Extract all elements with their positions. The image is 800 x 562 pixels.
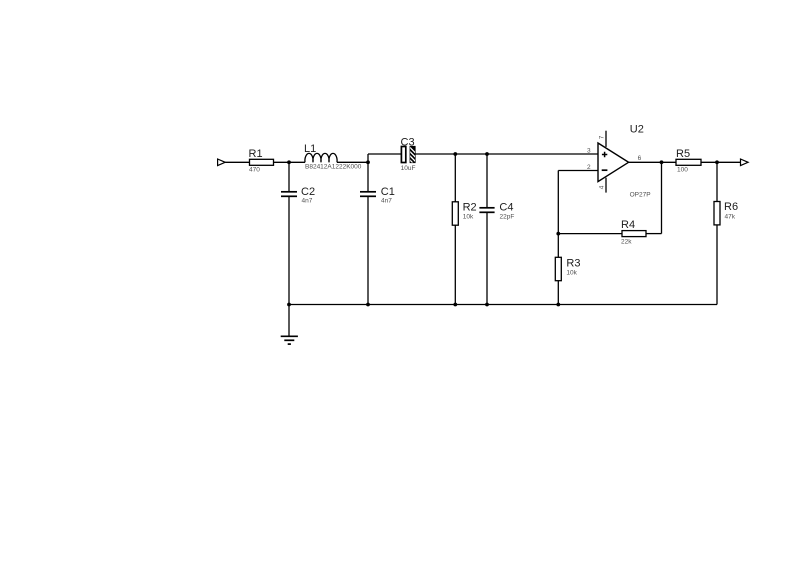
capacitor C2	[281, 192, 297, 197]
svg-text:7: 7	[599, 135, 606, 139]
power pin 7 line	[605, 131, 607, 147]
wire op-amp output	[629, 161, 676, 163]
node junction L1/C1	[366, 160, 370, 164]
resistor R4	[622, 231, 646, 237]
svg-text:47k: 47k	[725, 213, 736, 220]
wire riser R4 to output node	[661, 162, 663, 233]
wire op-amp pin 2 stub	[558, 170, 598, 172]
capacitor C4	[479, 208, 494, 213]
node junction rail C1	[366, 303, 370, 307]
wire pin 2 down to feedback node	[557, 171, 559, 234]
resistor R1	[250, 159, 274, 165]
svg-text:C1: C1	[381, 186, 395, 198]
svg-text:R5: R5	[676, 148, 690, 160]
capacitor C2 branch wire top	[288, 162, 290, 191]
input terminal	[218, 159, 226, 166]
capacitor C3 right plate hatched	[410, 147, 416, 166]
svg-text:4n7: 4n7	[381, 198, 392, 205]
svg-text:R1: R1	[249, 148, 263, 160]
output terminal	[741, 159, 749, 166]
wire R4 to output riser	[646, 233, 662, 235]
svg-text:10uF: 10uF	[401, 165, 416, 172]
op-amp minus symbol	[602, 169, 608, 171]
svg-text:C3: C3	[401, 137, 415, 149]
resistor R5	[676, 159, 701, 165]
node junction output	[660, 160, 664, 164]
wire R6 branch top	[716, 162, 718, 201]
power pin 4 line	[605, 178, 607, 193]
svg-text:R2: R2	[463, 201, 477, 213]
svg-text:R3: R3	[566, 258, 580, 270]
wire input to R1	[225, 161, 249, 163]
svg-text:6: 6	[638, 155, 642, 162]
inductor L1	[305, 153, 337, 162]
node junction R1/L1/C2	[287, 160, 291, 164]
node junction rail R3	[556, 303, 560, 307]
wire C4 to ground rail	[486, 213, 488, 305]
svg-text:U2: U2	[630, 123, 644, 135]
wire R1 to L1	[274, 161, 306, 163]
svg-text:C2: C2	[301, 186, 315, 198]
capacitor C3 left plate	[401, 147, 405, 163]
svg-text:3: 3	[587, 148, 591, 155]
resistor R3	[555, 257, 561, 280]
resistor R2	[452, 202, 458, 225]
node junction C4 top	[485, 152, 489, 156]
wire C2 to ground rail	[288, 197, 290, 305]
wire R2 to ground rail	[454, 225, 456, 304]
wire R2 branch top	[454, 154, 456, 202]
svg-text:4n7: 4n7	[302, 198, 313, 205]
svg-text:10k: 10k	[566, 270, 577, 277]
wire feedback node to R4	[558, 233, 622, 235]
op-amp U2	[598, 143, 629, 182]
wire L1 to node	[337, 161, 368, 163]
node junction R6 top	[715, 160, 719, 164]
resistor R6	[714, 202, 720, 225]
capacitor C1 branch wire top	[367, 162, 369, 191]
wire to C3	[368, 153, 401, 155]
capacitor C1	[360, 192, 376, 197]
wire C4 branch top	[486, 154, 488, 207]
svg-text:100: 100	[677, 167, 688, 174]
node junction rail R2	[453, 303, 457, 307]
op-amp plus symbol	[602, 152, 607, 157]
wire C3 to op-amp pin 3	[415, 153, 598, 155]
node junction R2 top	[453, 152, 457, 156]
wire R3 to ground rail	[557, 281, 559, 305]
wire R5 to output terminal	[701, 161, 741, 163]
node junction rail C4	[485, 303, 489, 307]
node junction rail C2	[287, 303, 291, 307]
svg-text:B82412A1222K000: B82412A1222K000	[305, 164, 362, 171]
svg-text:10k: 10k	[463, 214, 474, 221]
svg-text:OP27P: OP27P	[630, 192, 651, 199]
svg-text:22k: 22k	[621, 239, 632, 246]
wire ground rail	[289, 304, 717, 306]
wire R3 top	[557, 234, 559, 258]
svg-text:R6: R6	[724, 201, 738, 213]
wire C1 to ground rail	[367, 197, 369, 305]
svg-text:470: 470	[249, 167, 260, 174]
svg-text:22pF: 22pF	[500, 214, 515, 221]
svg-text:C4: C4	[499, 201, 513, 213]
svg-text:R4: R4	[621, 219, 635, 231]
svg-text:4: 4	[599, 185, 606, 189]
wire R6 to ground rail	[716, 225, 718, 305]
svg-text:L1: L1	[304, 143, 316, 155]
wire riser to C3 level	[367, 154, 369, 162]
ground	[281, 305, 298, 345]
node junction feedback	[556, 232, 560, 236]
